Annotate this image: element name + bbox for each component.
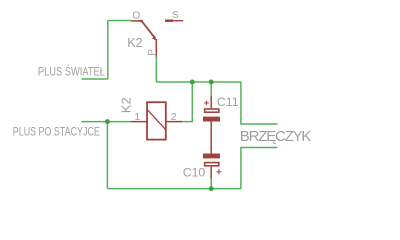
- relay coil K2 pin 1 line: [131, 121, 147, 123]
- svg-text:O: O: [132, 11, 140, 22]
- wire: right vertical to BRZECZYK upper stub: [241, 82, 278, 124]
- wire: C10 bottom lead: [210, 179, 212, 189]
- capacitor C10 outlined plate: [205, 163, 219, 166]
- wire: top bus horizontal: [156, 81, 241, 83]
- svg-text:C10: C10: [183, 166, 206, 180]
- junction dot on bus at relay branch: [190, 80, 195, 85]
- svg-text:K2: K2: [127, 36, 142, 50]
- svg-text:K2: K2: [118, 97, 133, 113]
- switch contact S pin line: [173, 20, 183, 22]
- junction dot on bottom bus at C10: [209, 186, 214, 191]
- svg-text:2: 2: [171, 111, 177, 123]
- capacitor C11 outlined plate: [205, 109, 219, 112]
- svg-text:S: S: [172, 10, 179, 21]
- wire: PLUS PO STACYJCE stub to relay pin 1: [82, 121, 132, 123]
- junction dot on pin1 wire: [105, 119, 110, 124]
- relay coil K2 box: [147, 102, 166, 139]
- wire/pins between C11 and C10: [210, 122, 212, 154]
- wire: C11 top lead: [210, 82, 212, 96]
- svg-text:BRZĘCZYK: BRZĘCZYK: [240, 128, 312, 145]
- wire: left vertical up to switch: [107, 21, 109, 80]
- wire: P pin down to bus: [155, 57, 157, 83]
- wire: BRZECZYK lower stub up from bottom bus: [241, 148, 278, 189]
- junction dot on bus at C11: [209, 80, 214, 85]
- wire: PLUS SWIATEL stub horizontal: [82, 78, 108, 80]
- wire: left vertical down to bottom bus: [106, 122, 108, 189]
- capacitor C11 top pin: [210, 96, 212, 108]
- wire: bottom bus horizontal: [107, 188, 241, 190]
- wire: branch down to relay pin 2: [182, 82, 192, 122]
- switch lever: [142, 21, 155, 37]
- switch P pin line: [155, 39, 157, 57]
- svg-text:PLUS PO STACYJCE: PLUS PO STACYJCE: [13, 125, 100, 139]
- capacitor C10 bottom pin: [210, 167, 212, 179]
- switch K2 contact O pin line: [131, 20, 142, 22]
- svg-text:C11: C11: [217, 95, 239, 109]
- svg-text:PLUS ŚWIATEŁ: PLUS ŚWIATEŁ: [38, 64, 105, 79]
- svg-text:P: P: [147, 49, 158, 56]
- wire: top horizontal to O contact: [108, 20, 131, 22]
- capacitor C11 filled plate: [203, 117, 220, 122]
- capacitor C11 plus mark: [204, 101, 209, 106]
- relay coil K2 pin 2 line: [166, 121, 183, 123]
- switch contact S thick plate: [165, 19, 173, 22]
- svg-text:1: 1: [134, 111, 140, 123]
- switch pivot dot: [140, 20, 143, 23]
- switch lever arrowhead: [152, 36, 157, 41]
- capacitor C10 plus mark: [216, 169, 221, 174]
- capacitor C10 filled plate: [203, 154, 220, 159]
- relay coil diagonal: [147, 110, 165, 130]
